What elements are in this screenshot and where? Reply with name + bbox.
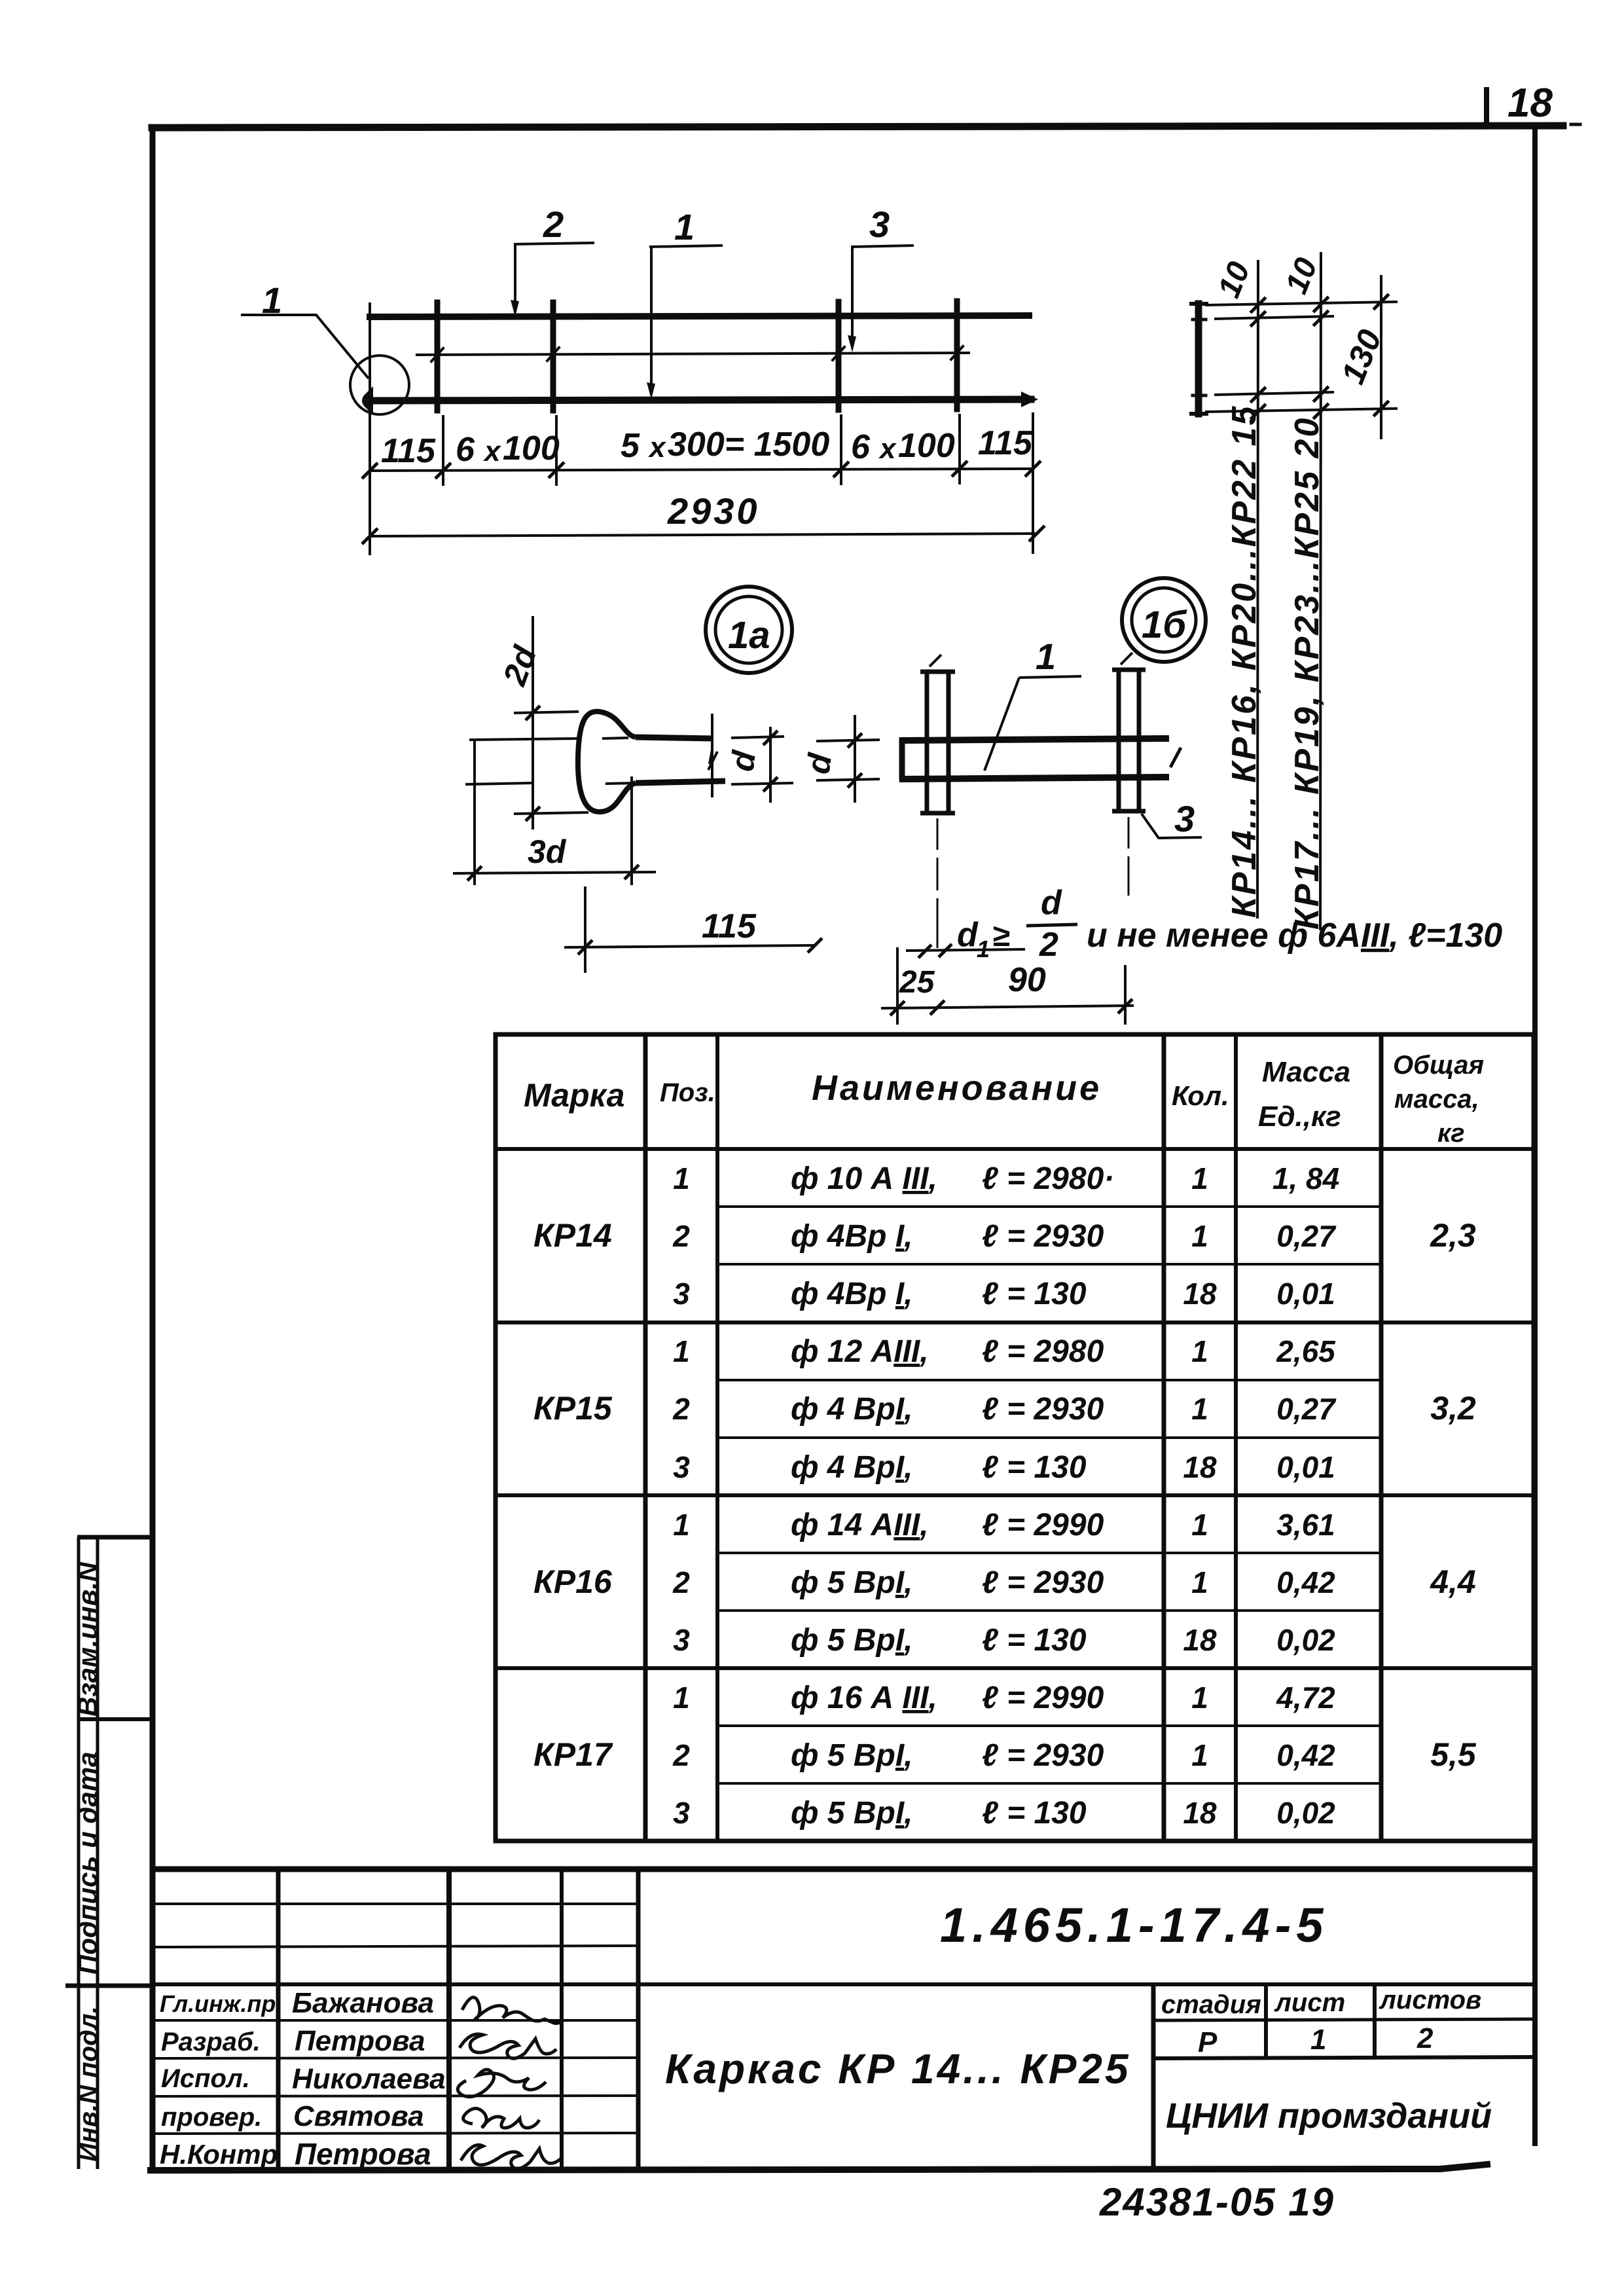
svg-text:2930: 2930 [667,490,760,532]
leader 3 [851,246,914,346]
cross rod 1b right [1112,668,1146,812]
svg-text:d: d [957,916,979,954]
svg-text:18: 18 [1183,1623,1217,1657]
svg-text:листов: листов [1379,1986,1481,2014]
dim vertical line 130 [1380,276,1382,438]
svg-text:Наименование: Наименование [812,1068,1102,1108]
svg-text:Общая: Общая [1393,1051,1484,1080]
svg-text:ф 4 ВрI,: ф 4 ВрI, [791,1392,913,1427]
rod bend mark lower [1193,394,1206,397]
svg-text:Взам.инв.N: Взам.инв.N [72,1561,103,1717]
svg-text:ф 4 ВрI,: ф 4 ВрI, [791,1450,913,1485]
rod 1b bottom edge [899,777,1169,779]
svg-text:1а: 1а [728,614,770,657]
rod 1a bottom edge [636,781,725,783]
svg-text:Кол.: Кол. [1172,1080,1229,1111]
svg-text:5,5: 5,5 [1430,1736,1477,1773]
svg-text:0,27: 0,27 [1276,1392,1337,1426]
signature 3 [458,2069,546,2097]
leader 2 [514,243,594,310]
rod elevation [1195,304,1202,414]
cross rod a [435,302,441,410]
svg-text:90: 90 [1008,961,1046,999]
svg-text:Поз.: Поз. [660,1078,715,1107]
svg-text:1: 1 [1191,1565,1208,1599]
signature table vertical 1 [276,1869,281,2169]
page number tick [1484,90,1489,126]
svg-text:1: 1 [1191,1334,1208,1368]
svg-text:1: 1 [1191,1161,1208,1195]
ext 2d top [514,712,579,713]
cross rod centerline left [937,818,939,948]
svg-text:6: 6 [456,431,475,469]
stadia header underline [1153,2019,1535,2020]
extension left [369,302,371,555]
svg-text:2: 2 [672,1219,690,1253]
table outer box [496,1034,1534,1841]
dimension line row 2 total [362,526,1045,544]
ext rod top left [469,738,580,740]
svg-text:18: 18 [1507,81,1553,126]
group line kp14/kp15 [496,1321,1534,1324]
svg-text:Каркас КР 14... КР25: Каркас КР 14... КР25 [665,2045,1131,2092]
row line 1 [717,1205,1381,1208]
svg-text:ф 5 ВрI,: ф 5 ВрI, [791,1738,913,1773]
svg-text:ф 5 ВрI,: ф 5 ВрI, [791,1623,913,1658]
rod top ticks 1b [929,653,1132,666]
stadia cell divider [1151,1984,1156,2169]
svg-text:стадия: стадия [1161,1990,1261,2019]
svg-text:1: 1 [1191,1219,1208,1253]
bottom chord right anchor head [1021,392,1038,407]
signature 1 [462,1997,562,2024]
ext line top long [1206,302,1396,305]
svg-text:ф 12 АIII,: ф 12 АIII, [791,1334,929,1369]
svg-text:6: 6 [851,428,871,466]
svg-text:Инв.N подл.: Инв.N подл. [74,2006,103,2162]
svg-text:18: 18 [1183,1450,1217,1484]
svg-text:0,01: 0,01 [1276,1277,1335,1311]
svg-text:x: x [878,433,897,465]
dim 3d left vertical [473,739,476,885]
svg-text:лист: лист [1274,1988,1345,2017]
svg-text:ф 4Вр I,: ф 4Вр I, [791,1219,913,1254]
designation bottom line [153,1982,1535,1986]
svg-text:2: 2 [672,1738,690,1772]
dim ticks row1 [362,461,1041,479]
svg-text:5: 5 [621,427,640,465]
svg-text:ℓ = 2930: ℓ = 2930 [982,1392,1104,1427]
svg-text:масса,: масса, [1394,1085,1479,1114]
row line 5 [717,1436,1381,1439]
svg-text:ф 5 ВрI,: ф 5 ВрI, [791,1565,913,1600]
dim vertical line col1 [1257,261,1258,917]
svg-text:кг: кг [1437,1119,1465,1148]
signature table vertical 4 / karkas cell left [636,1869,641,2169]
svg-text:1: 1 [1191,1681,1208,1715]
ext rod bottom left [465,783,532,784]
svg-text:18: 18 [1183,1277,1217,1311]
table col massa/obshch [1379,1034,1384,1841]
extension x1466 [958,414,961,484]
rod 1a top edge [636,737,713,738]
bottom chord rod pos 1 [373,399,1031,401]
extension x1285 [840,414,842,485]
svg-text:Гл.инж.пр.: Гл.инж.пр. [160,1990,282,2017]
svg-text:ℓ = 2990: ℓ = 2990 [982,1681,1104,1715]
row line 11 [717,1782,1381,1785]
svg-text:2: 2 [543,204,564,245]
list listov divider [1373,1984,1377,2058]
margin cell line 3 [65,1984,153,1988]
svg-text:Петрова: Петрова [295,2137,431,2171]
svg-text:КР14... КР16, КР20...КР22 15: КР14... КР16, КР20...КР22 15 [1225,405,1263,918]
callout circle 1b [1122,578,1206,662]
svg-text:Подпись и дата: Подпись и дата [72,1752,103,1975]
dim d 1a [712,714,793,803]
signature table vertical 2 [446,1869,452,2169]
detail circle callout [350,355,409,414]
rod 1b left cap [899,738,905,780]
svg-text:ℓ = 130: ℓ = 130 [982,1277,1087,1311]
frame right border [1532,126,1538,2143]
frame bottom border [151,2164,1487,2170]
svg-text:3: 3 [673,1796,690,1830]
svg-text:Петрова: Петрова [295,2025,425,2057]
row line 8 [717,1609,1381,1612]
svg-text:4,4: 4,4 [1430,1563,1476,1600]
svg-text:0,42: 0,42 [1276,1738,1335,1772]
svg-text:ф 5 ВрI,: ф 5 ВрI, [791,1796,913,1831]
extension x850 [555,415,558,486]
title block top line [153,1867,1535,1872]
svg-text:2: 2 [1416,2022,1434,2054]
cross rod b [550,302,556,410]
svg-text:ф 10 А III,: ф 10 А III, [791,1161,937,1196]
svg-text:ℓ = 130: ℓ = 130 [982,1623,1087,1658]
svg-text:1: 1 [1191,1508,1208,1542]
ext 3d right [630,776,633,885]
signature 2 [460,2034,556,2058]
svg-text:КР14: КР14 [533,1217,612,1254]
svg-text:25: 25 [899,965,935,1000]
svg-text:3,2: 3,2 [1430,1390,1476,1427]
svg-text:18: 18 [1183,1796,1217,1830]
svg-text:≥: ≥ [992,919,1010,953]
svg-text:Марка: Марка [524,1077,624,1114]
svg-text:Святова: Святова [293,2100,424,2132]
svg-text:1: 1 [977,936,990,962]
ext line bottom long [1206,409,1396,412]
group line kp15/kp16 [496,1493,1534,1497]
svg-text:провер.: провер. [161,2103,262,2132]
svg-text:КР16: КР16 [533,1563,613,1600]
svg-text:1: 1 [262,280,282,321]
svg-text:Р: Р [1198,2026,1218,2058]
callout circle 1a [706,587,792,673]
dim 25-90 line [881,947,1134,1025]
svg-text:ℓ = 2930: ℓ = 2930 [982,1219,1104,1254]
signature table vertical 3 [560,1869,564,2169]
ext line bottom short [1216,392,1333,395]
empty row line 2 [153,1946,638,1947]
rod end serif top [1191,302,1206,306]
svg-text:2,3: 2,3 [1430,1217,1476,1254]
svg-text:ℓ = 2980·: ℓ = 2980· [982,1161,1114,1196]
svg-text:ℓ = 2930: ℓ = 2930 [982,1565,1104,1600]
svg-text:2: 2 [1039,926,1058,964]
table col marka/poz [643,1034,648,1841]
svg-text:ℓ = 2990: ℓ = 2990 [982,1508,1104,1542]
rod bend mark upper [1193,318,1206,321]
name row line 2 [153,2058,638,2058]
dim 3d ticks [467,865,639,881]
svg-text:1.465.1-17.4-5: 1.465.1-17.4-5 [940,1898,1328,1952]
margin cell line 2 [77,1717,153,1721]
svg-text:ф 16 А III,: ф 16 А III, [791,1681,937,1715]
row line 4 [717,1379,1381,1381]
svg-text:ф 14 АIII,: ф 14 АIII, [791,1508,929,1542]
leader 1 left [241,315,369,378]
weld ticks on middle wire [431,346,963,361]
svg-text:115: 115 [702,907,757,945]
svg-text:1б: 1б [1142,604,1187,646]
svg-text:ℓ = 130: ℓ = 130 [982,1450,1087,1485]
frame top border [152,124,1580,128]
dimension line row 1 [362,302,1041,555]
margin cell line 1 [77,1535,153,1540]
svg-text:ЦНИИ промзданий: ЦНИИ промзданий [1166,2096,1492,2136]
name row line 4 [153,2133,638,2134]
svg-text:24381-05 19: 24381-05 19 [1099,2180,1335,2224]
svg-text:1: 1 [673,1334,690,1368]
dim d 1b [816,715,880,803]
svg-text:0,01: 0,01 [1276,1450,1335,1484]
svg-text:1: 1 [674,206,695,247]
svg-text:2,65: 2,65 [1276,1334,1336,1368]
svg-text:d: d [1041,884,1062,922]
dim vertical line col2 [1320,253,1321,929]
svg-text:4,72: 4,72 [1276,1681,1335,1715]
row line 7 [717,1552,1381,1554]
signature 5 [461,2145,562,2168]
dim ticks right detail [1252,299,1265,418]
signature 4 [463,2108,539,2128]
svg-text:3,61: 3,61 [1276,1508,1335,1542]
table col kol/massa [1234,1034,1238,1841]
cross rod d [954,301,960,409]
svg-text:100: 100 [898,427,955,465]
svg-text:1, 84: 1, 84 [1272,1161,1339,1195]
rod 1b top edge [899,738,1169,740]
svg-text:Масса: Масса [1262,1056,1350,1088]
rod end serif bottom [1191,412,1206,416]
ext 2d bottom [514,812,588,814]
svg-text:ф 4Вр I,: ф 4Вр I, [791,1277,913,1311]
stadia list divider [1264,1984,1268,2058]
extension x677 [442,415,444,486]
svg-text:КР17... КР19, КР23...КР25 20: КР17... КР19, КР23...КР25 20 [1288,416,1326,930]
cross rod c [836,302,842,410]
svg-text:1: 1 [673,1161,690,1195]
svg-text:ℓ = 130: ℓ = 130 [982,1796,1087,1831]
rod 1a break mark [708,750,717,770]
extension right [1032,412,1034,554]
stadia value underline [1153,2057,1535,2058]
cross rod centerline right [1128,817,1130,896]
svg-text:1: 1 [673,1508,690,1542]
dim 2d vertical line [453,616,656,885]
svg-text:100: 100 [503,429,560,467]
leader 1 detail 1b [984,676,1081,771]
svg-text:0,02: 0,02 [1276,1796,1335,1830]
svg-text:3: 3 [869,204,890,245]
group line kp16/kp17 [496,1666,1534,1670]
LEFT MARGIN COLUMN [65,1537,153,2169]
svg-text:ℓ = 2930: ℓ = 2930 [982,1738,1104,1773]
svg-text:Разраб.: Разраб. [161,2028,261,2056]
row line 2 [717,1263,1381,1266]
dim 3d line [453,872,656,873]
margin divider line [96,1537,99,2169]
svg-text:КР15: КР15 [533,1390,613,1427]
svg-text:115: 115 [978,424,1033,462]
svg-text:Николаева: Николаева [292,2063,446,2095]
svg-text:Бажанова: Бажанова [292,1987,434,2019]
svg-text:x: x [483,435,501,467]
table col poz/naimen [715,1034,719,1841]
rod 1b break mark [1170,748,1181,767]
svg-text:115: 115 [381,432,436,470]
svg-text:Н.Контр: Н.Контр [160,2139,278,2170]
leader 1 top [649,246,723,393]
svg-text:ℓ = 2980: ℓ = 2980 [982,1334,1104,1369]
svg-text:2: 2 [672,1565,690,1599]
svg-text:0,27: 0,27 [1276,1219,1337,1253]
row line 10 [717,1724,1381,1727]
svg-text:3: 3 [673,1277,690,1311]
svg-text:0,02: 0,02 [1276,1623,1335,1657]
dim 115 line 1a [564,886,822,973]
svg-text:0,42: 0,42 [1276,1565,1335,1599]
empty row line 1 [153,1903,638,1905]
name row line 3 [153,2096,638,2096]
svg-text:3: 3 [673,1623,690,1657]
table header underline [496,1147,1534,1151]
svg-text:1: 1 [1191,1392,1208,1426]
bottom chord left anchor head [362,386,373,415]
table col naimen/kol [1162,1034,1166,1841]
svg-text:1: 1 [1191,1738,1208,1772]
svg-text:КР17: КР17 [533,1736,613,1773]
svg-text:Ед.,кг: Ед.,кг [1258,1101,1341,1133]
middle wire line [417,353,969,355]
dim d1 line [906,944,1025,958]
svg-text:300= 1500: 300= 1500 [668,426,829,464]
top chord rod pos 2 [370,316,1029,317]
head centerline dashes [602,738,635,784]
cross rod 1b left [920,670,955,814]
svg-text:и не менее ф 6АIII, ℓ=130: и не менее ф 6АIII, ℓ=130 [1087,917,1502,955]
ticks 2d [526,706,540,821]
ext line top short [1216,316,1333,319]
svg-text:Испол.: Испол. [161,2064,250,2093]
svg-text:3: 3 [1174,798,1195,839]
svg-text:x: x [648,431,666,464]
svg-text:1: 1 [1036,636,1056,677]
leader 3 detail 1b [1142,814,1202,838]
svg-text:3: 3 [673,1450,690,1484]
margin outer line [77,1537,81,2169]
svg-text:1: 1 [1310,2024,1326,2056]
name row line 1 [153,2019,638,2022]
svg-text:3d: 3d [528,833,567,870]
svg-text:1: 1 [673,1681,690,1715]
anchor head shape [578,712,636,812]
svg-text:2: 2 [672,1392,690,1426]
frame left border [150,128,156,2170]
